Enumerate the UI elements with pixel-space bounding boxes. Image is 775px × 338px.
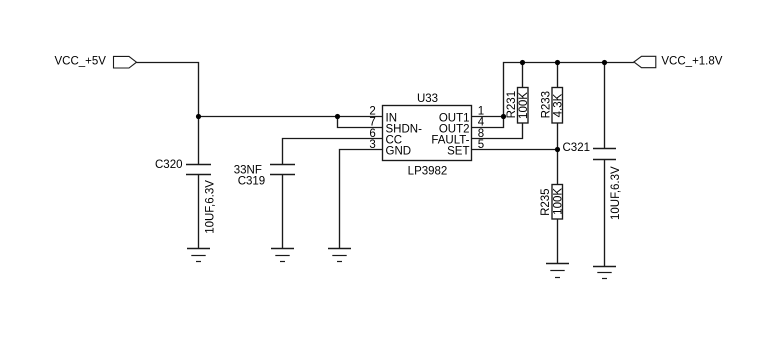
svg-text:10UF,6.3V: 10UF,6.3V (205, 180, 217, 234)
svg-text:SET: SET (447, 146, 469, 158)
svg-text:C320: C320 (155, 159, 183, 171)
svg-text:VCC_+5V: VCC_+5V (55, 55, 107, 67)
svg-text:4.3K: 4.3K (552, 93, 564, 117)
svg-text:GND: GND (386, 146, 412, 158)
svg-text:C321: C321 (563, 142, 591, 154)
svg-text:100K: 100K (518, 92, 530, 119)
svg-text:R233: R233 (540, 91, 552, 119)
svg-text:3: 3 (369, 139, 375, 151)
svg-text:R235: R235 (540, 188, 552, 216)
svg-text:VCC_+1.8V: VCC_+1.8V (661, 56, 722, 68)
svg-text:100K: 100K (552, 188, 564, 215)
svg-text:R231: R231 (506, 91, 518, 119)
svg-text:U33: U33 (417, 93, 438, 105)
svg-text:5: 5 (478, 139, 484, 151)
svg-text:LP3982: LP3982 (408, 166, 448, 178)
svg-text:10UF,6.3V: 10UF,6.3V (610, 166, 622, 220)
svg-text:C319: C319 (238, 175, 266, 187)
